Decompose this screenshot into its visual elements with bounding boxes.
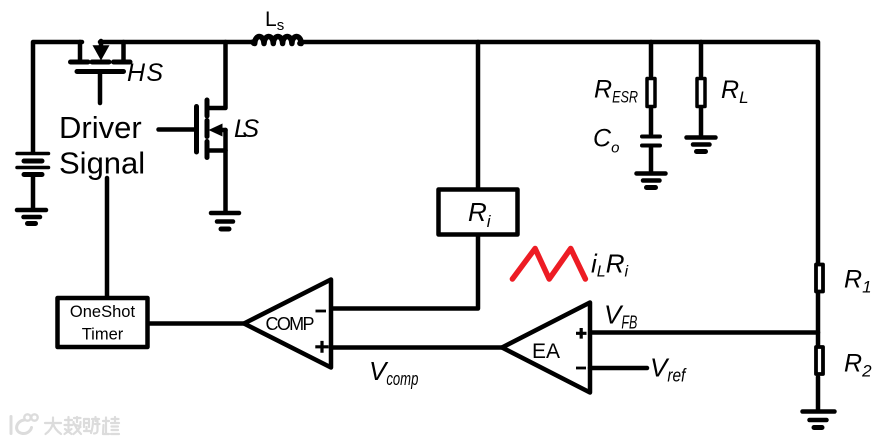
ripple waveform iL*Ri (512, 249, 585, 280)
wire COMP plus input from EA (331, 345, 502, 350)
wire V_FB feedback (590, 330, 818, 335)
svg-text:Vref: Vref (650, 353, 687, 386)
svg-text:RL: RL (721, 76, 749, 107)
battery V_in (17, 154, 49, 209)
resistor R_ESR (647, 42, 655, 134)
wire OneShot to COMP output (148, 321, 244, 326)
svg-text:Vcomp: Vcomp (369, 356, 418, 389)
wire top rail left + left rail (33, 42, 82, 152)
op-amp COMP comparator (244, 280, 331, 368)
ground (R2) (803, 412, 835, 428)
wire top rail right + right rail (100, 42, 818, 263)
wire V_ref stub (590, 366, 647, 371)
op-amp EA error amplifier (502, 303, 590, 393)
svg-text:Signal: Signal (59, 146, 145, 181)
svg-text:LS: LS (234, 115, 259, 143)
label COMP plus (315, 341, 328, 353)
svg-text:iLRi: iLRi (591, 249, 628, 281)
label COMP minus (316, 310, 327, 313)
resistor block Ri (439, 190, 518, 235)
wire R1 to R2 with feedback junction (816, 294, 821, 348)
transistor Q LS (low-side MOSFET) (159, 42, 226, 211)
wire driver signal to OneShot (105, 178, 110, 298)
svg-text:HS: HS (127, 59, 163, 87)
resistor R_L (697, 42, 705, 136)
resistor R2 (816, 347, 823, 374)
svg-text:Timer: Timer (82, 326, 124, 344)
inductor Ls coil (253, 36, 301, 43)
resistor R1 (816, 265, 823, 292)
watermark text (45, 417, 119, 434)
watermark logo (11, 414, 38, 433)
label EA plus (576, 328, 587, 339)
block OneShot Timer (58, 298, 148, 347)
wire Ri to COMP inverting input (331, 237, 478, 309)
svg-text:Ls: Ls (265, 8, 284, 34)
wire sense tap to Ri (476, 42, 481, 187)
capacitor Co (642, 137, 660, 172)
svg-text:R1: R1 (844, 266, 872, 297)
svg-text:Driver: Driver (59, 110, 142, 145)
svg-text:R2: R2 (844, 350, 872, 381)
ground (LS source) (211, 213, 239, 229)
svg-text:OneShot: OneShot (70, 303, 136, 321)
svg-text:COMP: COMP (266, 314, 315, 334)
svg-text:RESR: RESR (594, 76, 638, 107)
ground (battery) (17, 210, 46, 224)
svg-text:VFB: VFB (604, 300, 637, 333)
svg-text:EA: EA (532, 340, 560, 363)
label EA minus (576, 367, 586, 370)
ground (R_L) (687, 138, 716, 152)
transistor Q HS (high-side MOSFET) (71, 41, 131, 103)
ground (Co) (637, 174, 666, 188)
wire R2 to ground (816, 377, 821, 410)
svg-text:Co: Co (593, 125, 619, 157)
